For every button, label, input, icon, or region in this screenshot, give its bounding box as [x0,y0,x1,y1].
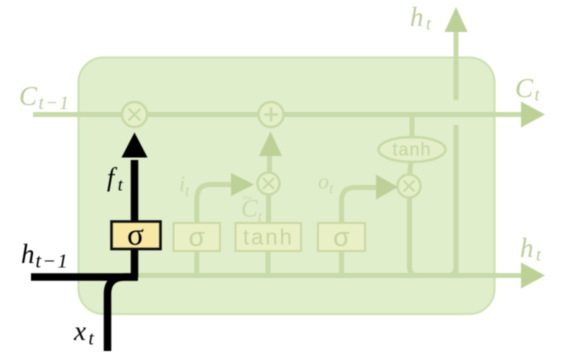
wire multiply to add circle with arrowhead [267,156,272,173]
tanh oval (faded) [379,137,446,162]
wire o_t curve from sigma to output multiply [342,188,378,225]
multiply circle (input gate, faded) [258,173,280,195]
wire i_t curve from sigma to multiply circle [197,185,232,225]
svg-text:σ: σ [127,217,144,252]
sigma box input gate (faded) [174,223,221,251]
wire branch up to output gate sigma [339,251,344,276]
sigma box forget gate (highlighted yellow) [112,222,161,250]
multiply circle (output gate, faded) [398,175,421,198]
svg-text:~: ~ [243,190,252,207]
sigma box output gate (faded) [318,223,365,251]
wire forget gate vertical black line [131,160,139,277]
arrowhead o_t into output multiply [376,175,398,200]
wire branch up to input gate sigma [194,251,199,276]
wire output multiply down to h-line [410,197,419,276]
arrowhead C_t output [521,102,545,128]
svg-text:tanh: tanh [243,225,294,250]
wire h_t up-branch (with crossing gap at C-line) [448,267,456,276]
wire branch up to tanh layer [266,251,271,276]
wire C-line (cell state, faded) [33,112,521,117]
wire tanh oval down to output multiply [410,161,412,176]
arrowhead h_t top output [445,7,468,32]
wire h-line (faded, bottom) [135,273,521,278]
svg-text:σ: σ [333,222,350,252]
arrowhead i_t into input multiply [231,173,254,196]
add circle on C-line (faded) [259,102,284,127]
arrowhead multiply into add circle [259,132,282,157]
svg-text:σ: σ [188,222,205,252]
tanh box (faded) [236,223,302,251]
wire C-line branch down to tanh oval [410,115,415,139]
svg-text:tanh: tanh [392,140,431,160]
LSTM cell body [79,58,495,315]
arrowhead black forget arrow into multiply [122,133,148,158]
wire tanh box up to multiply circle [266,194,271,224]
wire h_{t-1} black input line [31,273,138,281]
wire x_t black input curve [108,277,138,351]
multiply circle on C-line (forget, faded, under black arrow) [122,102,147,127]
arrowhead h_t right output [521,263,545,289]
